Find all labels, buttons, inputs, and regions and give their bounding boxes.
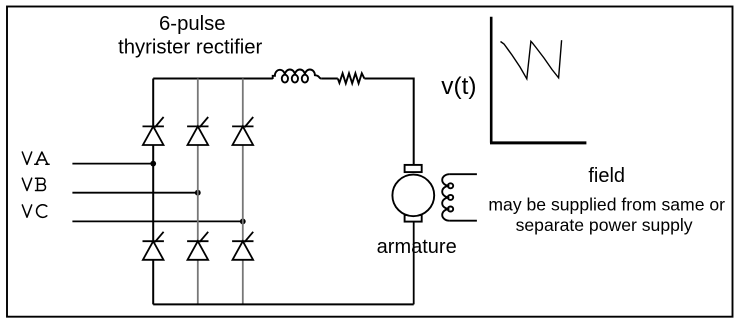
node A junction dot (150, 161, 156, 167)
title: 6-pulse thyrister rectifier (118, 13, 262, 59)
wire: bridge leg 2 upper (phase B column) (197, 79, 199, 127)
wire: bottom DC bus (153, 303, 414, 305)
svg-text:separate power supply: separate power supply (516, 215, 693, 235)
wire: top DC bus (153, 79, 414, 165)
wire: bridge leg 2 lower (197, 260, 199, 305)
wire: bridge leg 1 middle (152, 145, 154, 241)
svg-text:armature: armature (377, 236, 457, 258)
wire: bridge leg 3 upper (phase C column) (242, 79, 244, 127)
wire: bridge leg 3 lower (242, 260, 244, 305)
wire: phase line VB (72, 192, 197, 194)
wire: bridge leg 1 lower (152, 260, 154, 305)
wire: phase line VA (72, 163, 153, 165)
thyristor SCR3 (top, phase C) (232, 117, 253, 145)
waveform v(t) sawtooth (501, 40, 562, 79)
svg-text:v(t): v(t) (441, 73, 476, 100)
wire: field top lead (450, 173, 477, 175)
wire: bridge leg 1 upper (phase A column) (152, 79, 154, 127)
svg-text:6-pulse: 6-pulse (159, 13, 226, 35)
svg-text:thyrister rectifier: thyrister rectifier (118, 37, 262, 59)
wire: bridge leg 2 middle (197, 145, 199, 241)
label VB (22, 178, 45, 190)
resistor R (armature circuit) (338, 73, 365, 83)
field winding coil (442, 174, 453, 221)
node C junction dot (240, 219, 246, 225)
motor M armature (brushes and body) (392, 165, 434, 222)
v(t) graph axes (490, 17, 586, 143)
wire: armature bottom lead (413, 222, 415, 305)
label VC (22, 205, 47, 218)
wire: bridge leg 3 middle (242, 145, 244, 241)
thyristor SCR4 (bottom, phase A) (143, 232, 164, 260)
label VA (22, 152, 49, 164)
node B junction dot (195, 190, 201, 196)
thyristor SCR6 (bottom, phase C) (232, 232, 253, 260)
thyristor SCR1 (top, phase A) (143, 117, 164, 145)
thyristor SCR2 (top, phase B) (187, 117, 208, 145)
svg-text:field: field (588, 165, 625, 187)
wire: phase line VC (72, 220, 242, 222)
svg-text:may be supplied from same or: may be supplied from same or (488, 195, 725, 215)
thyristor SCR5 (bottom, phase B) (187, 232, 208, 260)
inductor L (smoothing choke) (273, 69, 322, 82)
wire: field bottom lead (450, 220, 477, 222)
